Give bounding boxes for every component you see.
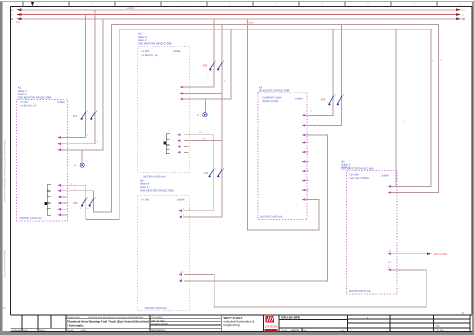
svg-text:MOTOR CARD 066: MOTOR CARD 066 — [20, 217, 43, 220]
svg-text:+24VDC: +24VDC — [126, 7, 135, 10]
svg-text:DI-BLOCK 24VDC 066: DI-BLOCK 24VDC 066 — [259, 89, 290, 93]
svg-text:-K3: -K3 — [320, 98, 325, 102]
svg-text:11: 11 — [462, 311, 465, 315]
svg-text:24V: 24V — [16, 21, 21, 24]
svg-text:100MA: 100MA — [173, 50, 181, 53]
svg-text:0 . Nu.: 0 . Nu. — [437, 329, 444, 332]
svg-text:-K2: -K2 — [73, 201, 78, 205]
svg-text:=: = — [197, 113, 199, 117]
svg-text:MOTOR DRVD 066: MOTOR DRVD 066 — [349, 290, 371, 293]
svg-text:Codification: Codification — [11, 329, 23, 332]
svg-text:Protection notice ISO 16016 ob: Protection notice ISO 16016 observe - We… — [3, 140, 6, 203]
svg-text:BLOCKED N: BLOCKED N — [152, 329, 166, 332]
svg-text:MOTOR CARD 066: MOTOR CARD 066 — [145, 307, 168, 310]
svg-text:100MA: 100MA — [381, 175, 389, 178]
svg-text:CH 4BD: CH 4BD — [350, 174, 359, 177]
svg-text:+V DAL: +V DAL — [141, 198, 150, 201]
svg-text:Drawing Center: Drawing Center — [152, 323, 169, 326]
svg-text:faltigung dieses Dokuments: faltigung dieses Dokuments — [3, 250, 6, 278]
svg-text:1/8/2022: 1/8/2022 — [291, 329, 300, 332]
svg-text:SIG MOTOR 24VDC 066: SIG MOTOR 24VDC 066 — [140, 188, 174, 192]
svg-text:SIG MOTOR 24VDC 066: SIG MOTOR 24VDC 066 — [341, 167, 374, 171]
svg-text:ZITRON: ZITRON — [265, 324, 278, 328]
svg-text:CHL 4A0 2750/W: CHL 4A0 2750/W — [350, 177, 370, 180]
svg-text:-K1: -K1 — [204, 171, 209, 175]
svg-text:Engineering: Engineering — [224, 323, 240, 327]
svg-text:Creat: Creat — [282, 329, 288, 332]
svg-text:Create: Create — [67, 329, 74, 332]
svg-text:100MA: 100MA — [177, 198, 185, 201]
svg-text:PE: PE — [10, 18, 14, 21]
svg-text:+V DAL: +V DAL — [141, 50, 150, 53]
svg-text:L-: L- — [462, 14, 464, 17]
svg-text:Name: Name — [39, 329, 46, 332]
svg-text:-K2: -K2 — [203, 63, 208, 67]
svg-text:1L-: 1L- — [9, 14, 13, 17]
svg-text:ITEMS 4x25W: ITEMS 4x25W — [262, 100, 279, 103]
svg-text:art/w: art/w — [81, 329, 86, 332]
svg-text:art: art — [341, 329, 344, 332]
svg-text:MOTOR CARD 066: MOTOR CARD 066 — [261, 216, 284, 219]
svg-text:-PE1 0.05W: -PE1 0.05W — [433, 253, 448, 256]
svg-text:-K1: -K1 — [72, 114, 77, 118]
svg-text:100MA: 100MA — [57, 101, 65, 104]
svg-text:+V BA/100, 1A: +V BA/100, 1A — [141, 54, 158, 57]
svg-text:/ Schematic: / Schematic — [67, 323, 84, 327]
svg-text:=: = — [74, 164, 76, 168]
svg-text:+V BA/100, 1A: +V BA/100, 1A — [20, 105, 37, 108]
svg-text:SIG MOTOR 24VDC 066: SIG MOTOR 24VDC 066 — [138, 42, 172, 46]
svg-text:PE: PE — [462, 18, 466, 21]
svg-text:Tag!: Tag! — [435, 325, 440, 328]
svg-text:Date: Date — [23, 329, 28, 332]
svg-text:SIG MOTOR 24VDC 066: SIG MOTOR 24VDC 066 — [18, 96, 52, 100]
svg-text:100MA: 100MA — [295, 97, 303, 100]
svg-text:1L+: 1L+ — [9, 9, 14, 12]
svg-text:MOTOR CARD 066: MOTOR CARD 066 — [144, 176, 167, 179]
svg-text:CRU-2K-HFE: CRU-2K-HFE — [281, 316, 300, 320]
